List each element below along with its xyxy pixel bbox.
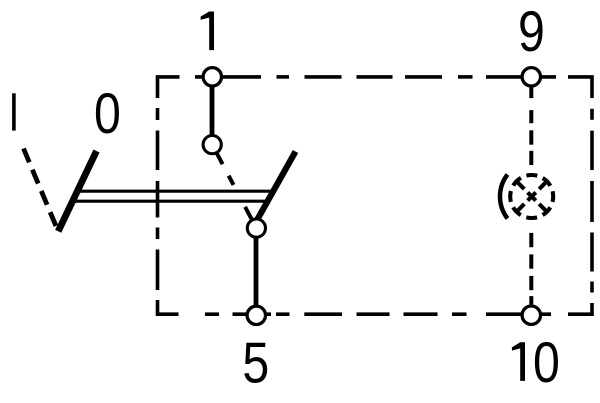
wire terminal 1 to upper contact xyxy=(210,80,215,140)
terminal label 10 xyxy=(512,342,525,381)
wire lower contact to terminal 5 xyxy=(254,232,259,310)
contact pivot lower xyxy=(247,219,265,237)
wire terminal 9 to lamp (dashed) xyxy=(529,86,533,165)
terminal node 9 xyxy=(522,68,540,86)
enclosure border top (dash-dot) xyxy=(158,77,593,98)
actuator lever dashed (position I) xyxy=(24,149,59,232)
actuator bridge bar (double line) xyxy=(74,191,272,201)
terminal node 1 xyxy=(203,68,221,86)
terminal label 1 xyxy=(201,12,214,51)
wire lamp to terminal 10 (dashed) xyxy=(529,233,533,306)
actuator lever right xyxy=(255,152,296,225)
contact pivot upper xyxy=(203,136,221,154)
position label I xyxy=(12,93,16,130)
svg-text:0: 0 xyxy=(94,82,121,146)
terminal node 5 xyxy=(247,306,265,324)
svg-text:9: 9 xyxy=(518,0,545,64)
switch blade dashed (open position) xyxy=(217,153,253,220)
illumination lamp (dashed circle with X) xyxy=(500,175,553,219)
enclosure border right (dash-dot) xyxy=(568,109,592,314)
terminal node 10 xyxy=(522,306,540,324)
actuator lever solid (position 0) xyxy=(58,151,96,231)
svg-text:0: 0 xyxy=(533,331,560,395)
enclosure border bottom (dash-dot) xyxy=(205,312,551,316)
svg-text:5: 5 xyxy=(242,331,269,395)
enclosure border left (dash-dot) xyxy=(158,108,179,314)
